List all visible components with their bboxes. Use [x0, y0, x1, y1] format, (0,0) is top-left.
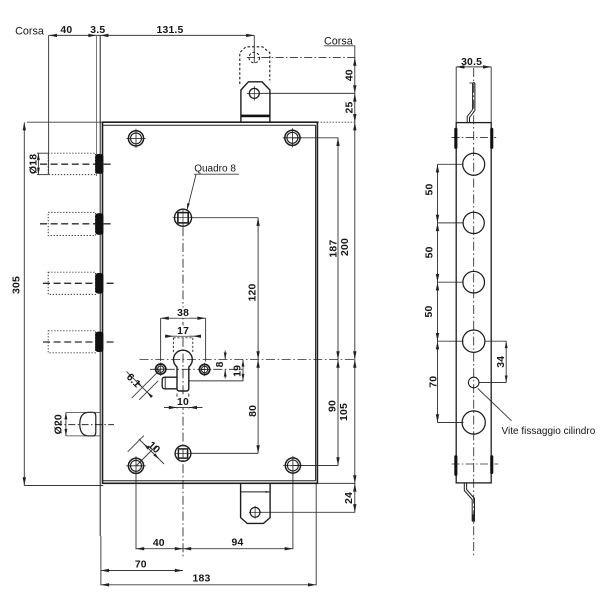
svg-text:187: 187: [328, 240, 339, 258]
svg-text:70: 70: [429, 376, 440, 388]
svg-text:40: 40: [153, 538, 165, 549]
svg-text:Corsa: Corsa: [15, 25, 44, 37]
svg-text:Ø18: Ø18: [28, 154, 39, 174]
svg-text:50: 50: [424, 306, 435, 318]
svg-text:94: 94: [232, 537, 244, 548]
svg-text:25: 25: [345, 102, 356, 114]
svg-text:24: 24: [344, 492, 355, 504]
svg-text:131.5: 131.5: [156, 25, 183, 36]
svg-text:183: 183: [193, 574, 211, 585]
svg-text:3.5: 3.5: [90, 25, 105, 36]
svg-text:19: 19: [232, 365, 243, 377]
svg-text:50: 50: [425, 184, 436, 196]
svg-text:Vite fissaggio cilindro: Vite fissaggio cilindro: [502, 426, 596, 437]
svg-text:Quadro 8: Quadro 8: [194, 164, 236, 175]
svg-text:305: 305: [11, 276, 22, 294]
svg-text:120: 120: [247, 284, 258, 302]
svg-text:105: 105: [339, 403, 350, 421]
svg-text:34: 34: [496, 356, 507, 368]
svg-text:80: 80: [248, 405, 259, 417]
svg-text:Ø20: Ø20: [53, 414, 64, 434]
svg-text:30.5: 30.5: [461, 57, 482, 68]
svg-text:70: 70: [135, 559, 147, 570]
svg-text:40: 40: [60, 25, 72, 36]
svg-text:200: 200: [340, 238, 351, 256]
svg-text:40: 40: [345, 69, 356, 81]
svg-text:8: 8: [215, 361, 226, 367]
svg-text:38: 38: [177, 308, 189, 319]
svg-text:90: 90: [327, 400, 338, 412]
svg-text:Corsa: Corsa: [324, 35, 353, 47]
svg-text:50: 50: [425, 246, 436, 258]
svg-text:17: 17: [177, 326, 189, 337]
svg-text:10: 10: [177, 397, 189, 408]
